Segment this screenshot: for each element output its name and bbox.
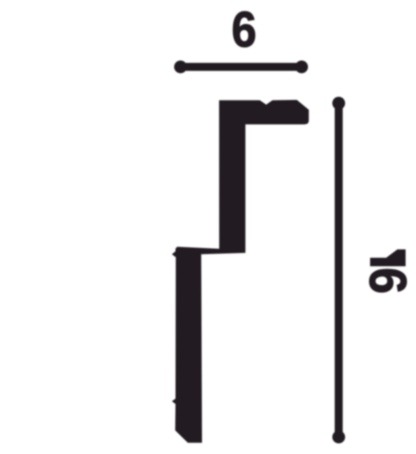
- dim dot left: [174, 61, 187, 74]
- label 16 : digit 1 (custom path, rotated): [370, 249, 406, 266]
- dimension line height (16): [335, 103, 343, 437]
- dim dot bottom: [332, 431, 345, 444]
- dimension line width (6): [181, 63, 302, 71]
- dim dot top: [332, 97, 345, 110]
- dim dot right: [295, 61, 308, 74]
- svg-text:6: 6: [231, 2, 256, 58]
- moulding profile cross-section: [172, 100, 309, 443]
- svg-text:6: 6: [359, 267, 416, 293]
